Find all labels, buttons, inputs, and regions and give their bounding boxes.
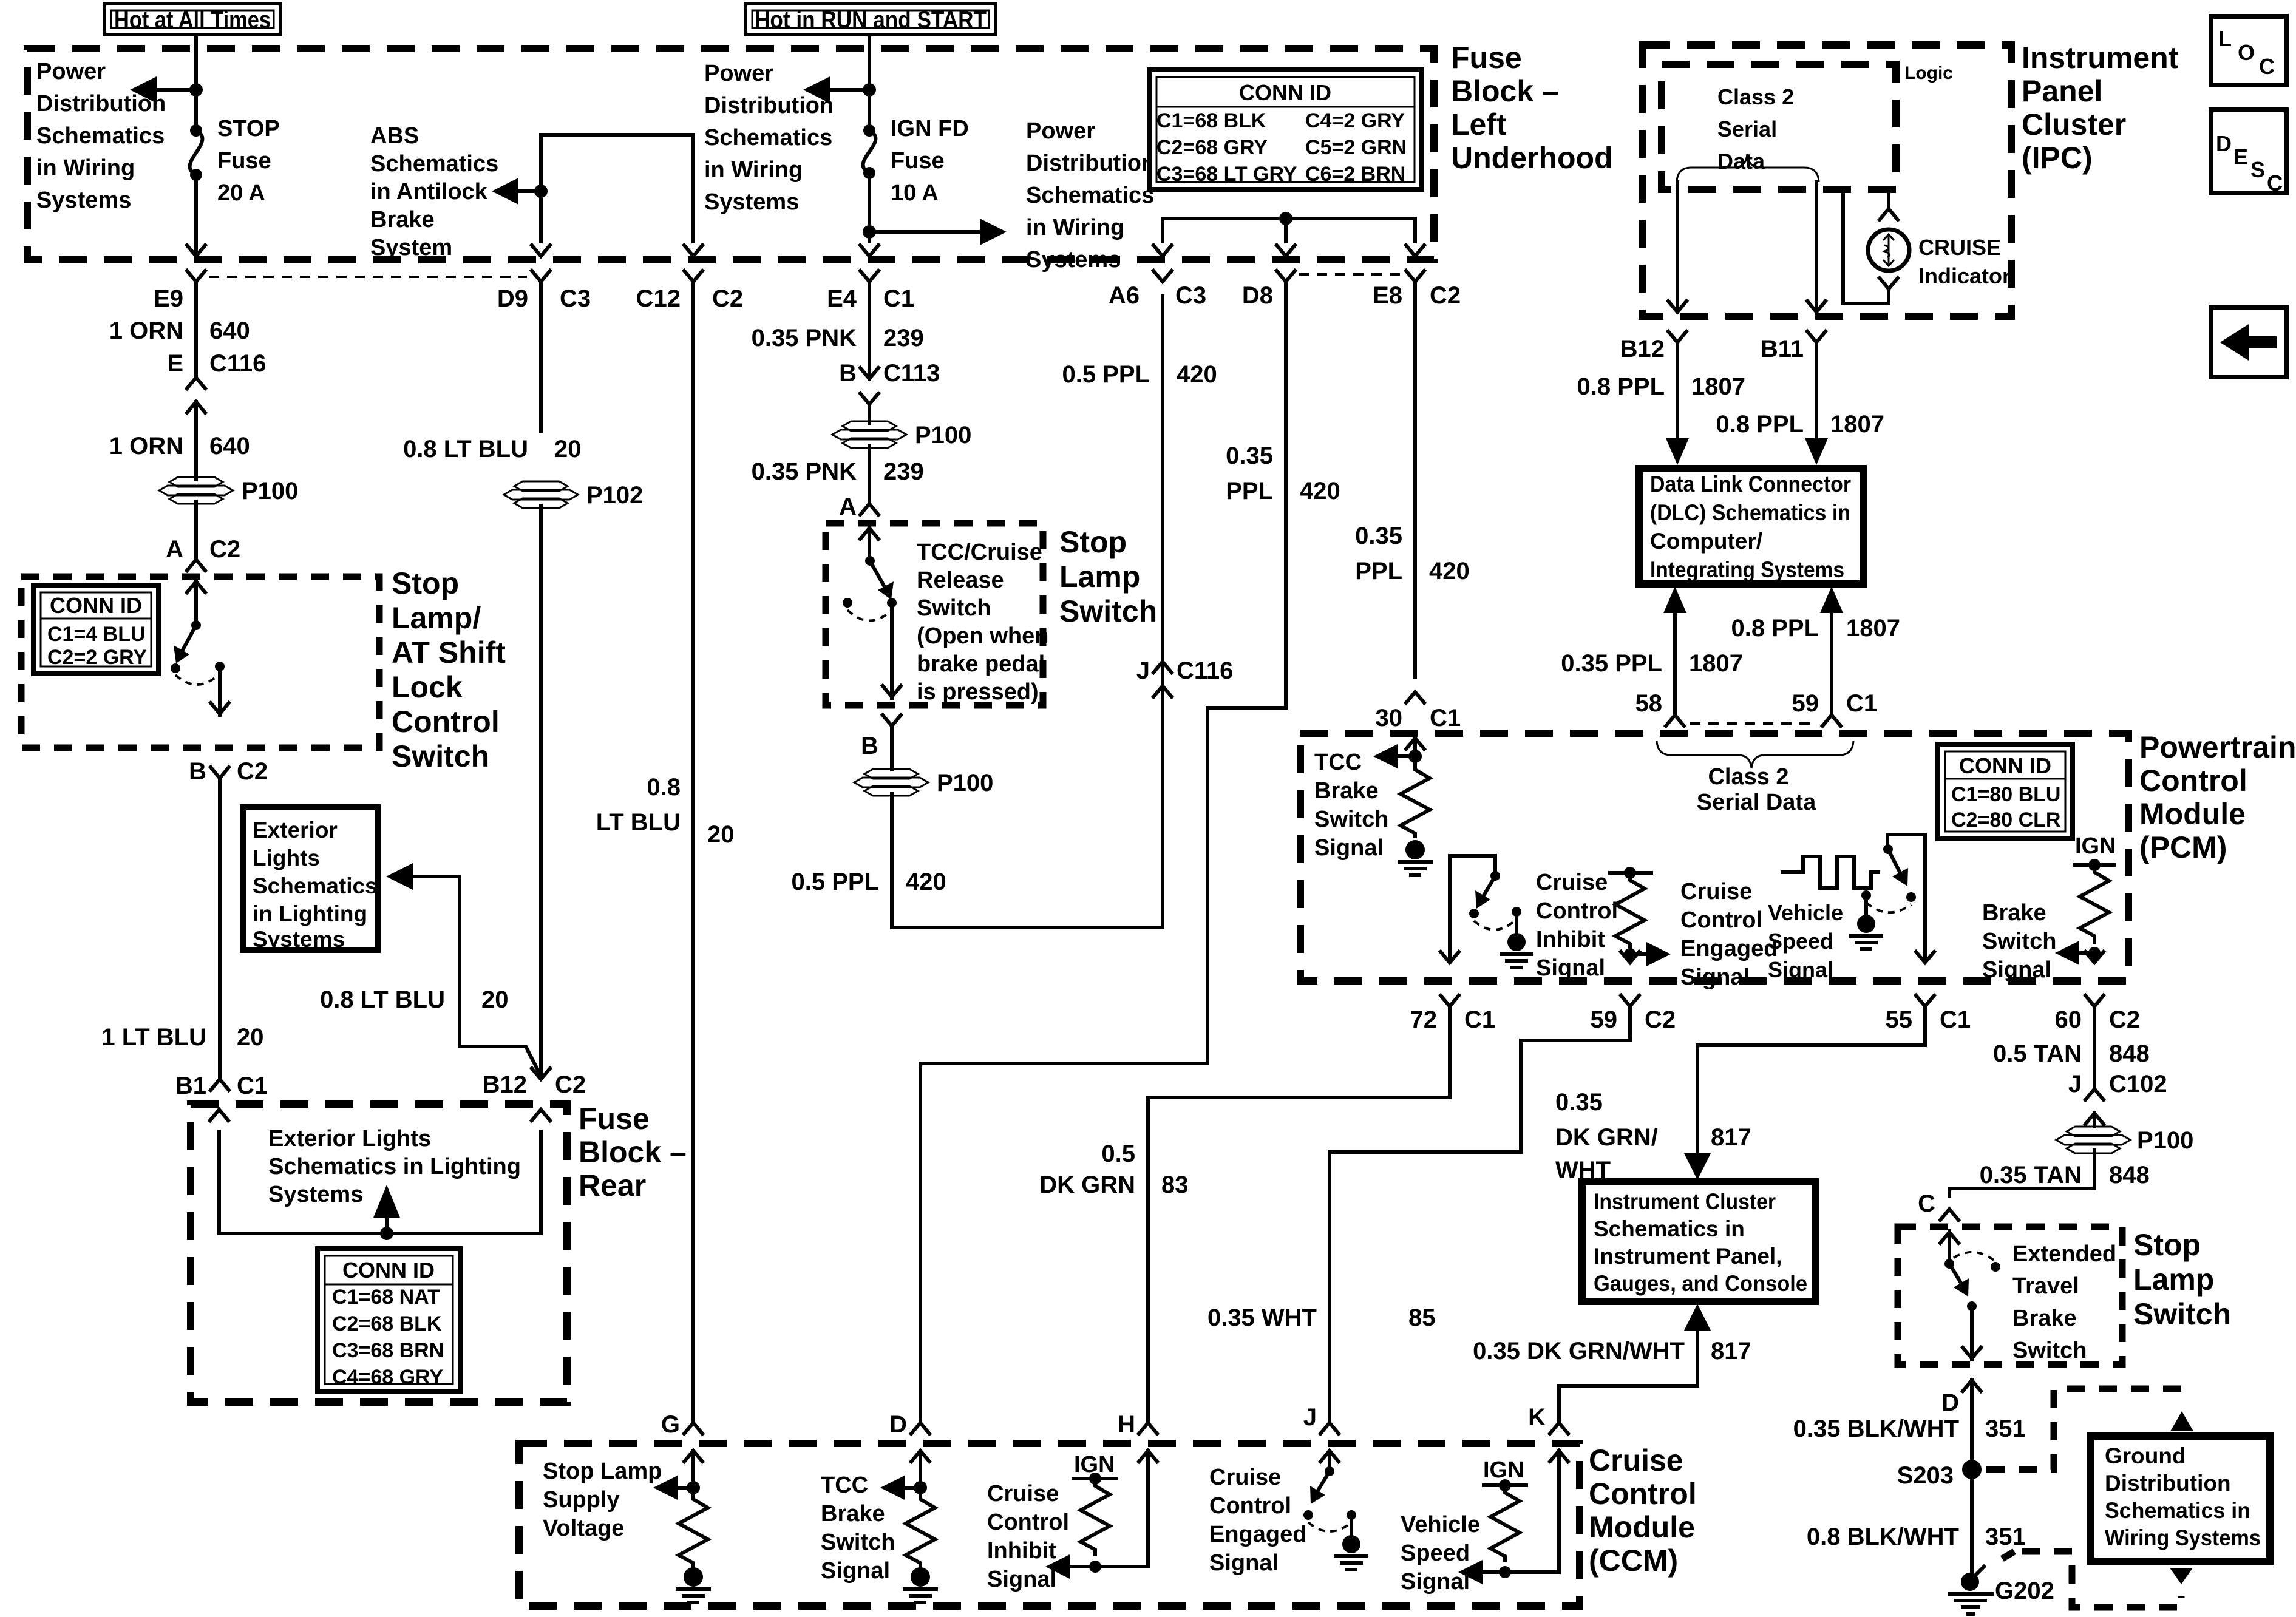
fuse block rear label xyxy=(579,1102,687,1202)
svg-text:0.8 PPL: 0.8 PPL xyxy=(1731,615,1819,642)
wire 72 exit xyxy=(1441,856,1459,963)
wire label 0.35 DK GRN/WHT 817 (upper) xyxy=(1555,1089,1751,1184)
svg-text:Vehicle: Vehicle xyxy=(1401,1512,1480,1537)
svg-text:Stop: Stop xyxy=(2133,1228,2201,1262)
svg-text:Cruise: Cruise xyxy=(1589,1443,1683,1477)
svg-text:Speed: Speed xyxy=(1401,1541,1470,1566)
arrow into DLC top (left) xyxy=(1666,436,1689,465)
svg-text:0.35 PNK: 0.35 PNK xyxy=(752,325,857,351)
svg-text:351: 351 xyxy=(1985,1524,2026,1550)
svg-text:Distribution: Distribution xyxy=(1026,151,1155,176)
ground G (CCM) xyxy=(678,1567,709,1602)
connector C116 cavity E xyxy=(167,350,266,480)
svg-text:in Wiring: in Wiring xyxy=(36,155,135,181)
svg-text:Inhibit: Inhibit xyxy=(1536,927,1605,952)
thin connector dash 58-59 xyxy=(1690,722,1818,725)
svg-text:Module: Module xyxy=(2139,797,2246,831)
node junction to power distribution xyxy=(189,83,203,97)
wire label 0.35 BLK/WHT 351 xyxy=(1793,1415,2026,1442)
wire H internal xyxy=(1068,1486,1148,1567)
svg-text:Lamp: Lamp xyxy=(2133,1263,2214,1297)
svg-text:848: 848 xyxy=(2109,1040,2150,1067)
svg-text:C3=68 BRN: C3=68 BRN xyxy=(332,1339,444,1362)
vehicle speed signal glyph (PCM) xyxy=(1782,856,1878,888)
wire 59 exit xyxy=(1621,952,1639,963)
svg-text:59: 59 xyxy=(1792,690,1819,717)
svg-text:G: G xyxy=(661,1411,680,1438)
svg-text:Release: Release xyxy=(917,568,1004,593)
connector fork K xyxy=(1528,1404,1568,1434)
wire fuse to E9 xyxy=(194,175,198,242)
svg-text:Switch: Switch xyxy=(821,1530,895,1555)
conn id box fuse block rear xyxy=(318,1249,460,1391)
svg-text:System: System xyxy=(370,235,452,260)
svg-text:Serial Data: Serial Data xyxy=(1697,790,1816,815)
connector fork D9 C3 xyxy=(497,271,591,431)
fuse block internal bus to D8 E8 xyxy=(1163,217,1415,220)
wire K internal xyxy=(1481,1486,1559,1572)
svg-text:30: 30 xyxy=(1376,705,1403,731)
cruise control inhibit signal text (PCM) xyxy=(1536,870,1618,981)
arrow into instrument cluster bottom xyxy=(1559,1304,1711,1424)
svg-text:Power: Power xyxy=(704,61,773,86)
svg-text:P100: P100 xyxy=(937,770,993,796)
svg-text:0.35 DK GRN/WHT: 0.35 DK GRN/WHT xyxy=(1473,1338,1685,1364)
svg-text:Systems: Systems xyxy=(268,1182,363,1207)
svg-text:Gauges, and Console: Gauges, and Console xyxy=(1594,1271,1807,1296)
wire label 0.8 LT BLU 20 (D9 wire) xyxy=(403,436,581,463)
connector fork H xyxy=(1118,1411,1157,1438)
instrument cluster schematics box xyxy=(1582,1182,1815,1301)
wire P102 down to B12 connector xyxy=(539,506,543,1074)
svg-text:10 A: 10 A xyxy=(891,180,939,206)
svg-text:Block –: Block – xyxy=(579,1135,687,1169)
stop lamp switch contacts xyxy=(171,620,225,685)
svg-text:239: 239 xyxy=(883,458,924,485)
wire label 0.5 PPL 420 (A6) xyxy=(1062,361,1217,388)
node K resistor junction xyxy=(1499,1566,1511,1578)
arrow up into DLC box xyxy=(1820,586,1843,613)
svg-text:Serial: Serial xyxy=(1717,117,1777,141)
svg-text:420: 420 xyxy=(906,869,946,895)
svg-text:0.5 PPL: 0.5 PPL xyxy=(1062,361,1150,388)
svg-text:D: D xyxy=(1941,1389,1959,1416)
arrow down B11 at IPC exit xyxy=(1807,291,1826,312)
wire label 0.35 PPL 420 (D8) xyxy=(1226,442,1340,504)
svg-text:Powertrain: Powertrain xyxy=(2139,730,2296,764)
svg-text:Computer/: Computer/ xyxy=(1650,529,1762,554)
svg-text:Switch: Switch xyxy=(1982,929,2056,954)
connector fork C at extended travel switch xyxy=(1918,1190,1958,1220)
svg-text:72: 72 xyxy=(1410,1006,1438,1033)
arrow into extended travel box xyxy=(1940,1231,1958,1261)
node TCC brake junction xyxy=(1408,750,1422,763)
svg-text:J: J xyxy=(2068,1071,2082,1097)
svg-text:Ground: Ground xyxy=(2105,1443,2186,1468)
cruise control engaged switch (CCM) xyxy=(1303,1466,1367,1570)
svg-text:Instrument Panel,: Instrument Panel, xyxy=(1594,1244,1782,1269)
wire label 0.35 WHT 85 xyxy=(1207,1304,1436,1331)
wire label 0.5 TAN 848 xyxy=(1993,1040,2150,1067)
svg-text:Cruise: Cruise xyxy=(1680,879,1752,904)
arrow down E4 xyxy=(860,245,878,256)
class 2 serial data text (PCM) xyxy=(1697,764,1816,815)
svg-text:Power: Power xyxy=(36,59,106,84)
arrow down B12 at IPC exit xyxy=(1668,291,1686,312)
svg-text:1 ORN: 1 ORN xyxy=(109,317,183,344)
svg-text:20: 20 xyxy=(237,1024,264,1051)
svg-text:Vehicle: Vehicle xyxy=(1768,900,1843,925)
brake switch signal text (PCM) xyxy=(1982,900,2056,983)
svg-text:Module: Module xyxy=(1589,1510,1695,1544)
svg-text:J: J xyxy=(1136,657,1150,684)
resistor stop lamp supply xyxy=(679,1488,708,1568)
connector fork B11 xyxy=(1761,331,1826,362)
arrow up H inside CCM xyxy=(1139,1451,1157,1486)
wire P100 down and right to A6 riser xyxy=(892,296,1163,927)
svg-text:1807: 1807 xyxy=(1830,411,1884,438)
brace class 2 serial data (IPC) xyxy=(1677,154,1819,182)
cruise control engaged signal text (CCM) xyxy=(1209,1465,1306,1576)
E8 drop xyxy=(1406,219,1424,256)
wire H drop xyxy=(1146,1097,1150,1423)
C12 drop wire xyxy=(684,135,702,256)
svg-text:817: 817 xyxy=(1711,1124,1751,1151)
arrow right to power distribution ref xyxy=(869,230,979,234)
extended travel switch contacts xyxy=(1944,1252,2000,1311)
connector fork 60 C2 xyxy=(2055,995,2141,1089)
node H resistor junction xyxy=(1089,1561,1101,1573)
IGN FD fuse label xyxy=(891,116,969,206)
svg-text:D9: D9 xyxy=(497,285,528,312)
svg-text:C2=80 CLR: C2=80 CLR xyxy=(1951,808,2060,832)
cruise control module dashed box xyxy=(519,1443,1580,1606)
svg-text:C4=68 GRY: C4=68 GRY xyxy=(332,1366,443,1389)
svg-text:C1: C1 xyxy=(1430,705,1461,731)
wire STOP fuse feed xyxy=(194,35,198,128)
stop lamp switch dashed box xyxy=(21,577,379,748)
svg-text:S203: S203 xyxy=(1897,1462,1954,1489)
fuse STOP 20A xyxy=(190,124,203,181)
svg-text:Lights: Lights xyxy=(253,846,320,870)
TCC brake switch signal text (PCM) xyxy=(1314,750,1388,861)
instrument panel cluster dashed box xyxy=(1642,45,2011,316)
svg-text:CRUISE: CRUISE xyxy=(1918,235,2001,260)
svg-text:C116: C116 xyxy=(209,350,266,377)
wire label 0.8 LT BLU 20 (G wire) xyxy=(596,774,735,848)
arrow to power distribution ref xyxy=(159,88,196,92)
svg-text:Stop: Stop xyxy=(1059,525,1127,559)
svg-text:817: 817 xyxy=(1711,1338,1751,1364)
svg-text:Stop Lamp: Stop Lamp xyxy=(543,1459,662,1484)
svg-text:55: 55 xyxy=(1886,1006,1913,1033)
svg-text:(CCM): (CCM) xyxy=(1589,1544,1678,1578)
svg-text:0.35: 0.35 xyxy=(1355,523,1402,549)
svg-text:C5=2 GRN: C5=2 GRN xyxy=(1305,136,1407,159)
svg-text:Distribution: Distribution xyxy=(2105,1471,2231,1496)
conn id box fuse block left underhood xyxy=(1149,70,1422,189)
svg-text:Hot in RUN and START: Hot in RUN and START xyxy=(755,7,987,33)
connector fork J xyxy=(1303,1404,1339,1434)
svg-text:Schematics: Schematics xyxy=(704,125,832,151)
svg-text:B: B xyxy=(189,758,206,785)
svg-text:C1=4 BLU: C1=4 BLU xyxy=(47,623,146,646)
svg-text:C1: C1 xyxy=(1464,1006,1495,1033)
vehicle speed signal text (CCM) xyxy=(1401,1512,1480,1595)
data link connector box xyxy=(1639,469,1863,584)
svg-text:Switch: Switch xyxy=(2133,1297,2231,1331)
svg-text:C1: C1 xyxy=(1940,1006,1971,1033)
wire 55 exit xyxy=(1916,835,1934,963)
svg-text:640: 640 xyxy=(209,317,250,344)
svg-text:H: H xyxy=(1118,1411,1135,1438)
svg-text:Brake: Brake xyxy=(370,207,435,232)
svg-text:Schematics in: Schematics in xyxy=(1594,1216,1745,1241)
marker down triangle xyxy=(2170,1568,2193,1584)
Hot in RUN and START box xyxy=(746,4,996,35)
svg-text:Extended: Extended xyxy=(2012,1241,2116,1267)
svg-text:IGN: IGN xyxy=(2075,833,2116,859)
fuse block rear dashed box xyxy=(191,1104,567,1402)
stop lamp supply voltage text xyxy=(543,1459,662,1541)
exterior lights schematics box (upper) xyxy=(243,807,378,952)
wire switch output to box exit xyxy=(211,666,229,715)
svg-text:E4: E4 xyxy=(827,285,857,312)
svg-text:E8: E8 xyxy=(1373,282,1402,309)
svg-text:Engaged: Engaged xyxy=(1209,1522,1306,1547)
svg-text:0.8: 0.8 xyxy=(647,774,681,801)
svg-text:Switch: Switch xyxy=(392,739,489,773)
svg-text:Exterior Lights: Exterior Lights xyxy=(268,1126,431,1151)
ground distribution schematics box xyxy=(2091,1436,2270,1561)
svg-text:0.8 BLK/WHT: 0.8 BLK/WHT xyxy=(1807,1524,1959,1550)
connector fork D below switch xyxy=(1941,1380,1981,1574)
grommet P102 xyxy=(504,481,643,509)
svg-text:0.5: 0.5 xyxy=(1101,1141,1135,1167)
svg-text:C2=2 GRY: C2=2 GRY xyxy=(47,646,147,669)
svg-text:B: B xyxy=(861,733,878,759)
TCC brake switch signal text (CCM) xyxy=(821,1473,895,1584)
node D junction xyxy=(914,1481,927,1494)
svg-text:Schematics: Schematics xyxy=(253,873,378,898)
svg-text:Control: Control xyxy=(2139,764,2247,798)
grommet P100 (E4 wire) xyxy=(832,421,971,449)
svg-text:Data Link Connector: Data Link Connector xyxy=(1650,472,1851,497)
svg-text:C102: C102 xyxy=(2109,1071,2167,1097)
svg-text:Distribution: Distribution xyxy=(704,93,834,118)
svg-text:0.5 PPL: 0.5 PPL xyxy=(791,869,879,895)
extended travel brake switch text xyxy=(2012,1241,2116,1363)
IGN pull-up K (CCM) xyxy=(1483,1457,1526,1560)
arrow left to TCC text xyxy=(1399,754,1415,758)
svg-text:LT BLU: LT BLU xyxy=(596,809,681,836)
svg-text:Signal: Signal xyxy=(1401,1569,1470,1595)
svg-text:Signal: Signal xyxy=(1314,835,1384,861)
svg-text:in Wiring: in Wiring xyxy=(1026,215,1124,240)
svg-text:Signal: Signal xyxy=(1209,1550,1279,1576)
svg-text:Class 2: Class 2 xyxy=(1717,84,1794,109)
svg-text:S: S xyxy=(2250,157,2265,182)
svg-text:Wiring Systems: Wiring Systems xyxy=(2105,1525,2261,1550)
wire P100 to C xyxy=(1949,1150,2094,1196)
fuse block internal bus wire xyxy=(541,133,693,137)
grommet P100 xyxy=(159,477,298,504)
svg-text:L: L xyxy=(2218,26,2232,51)
svg-text:P100: P100 xyxy=(242,478,298,504)
svg-text:59: 59 xyxy=(1591,1006,1618,1033)
wire D drop to CCM xyxy=(920,1063,1207,1423)
svg-text:Brake: Brake xyxy=(1314,778,1379,804)
svg-text:420: 420 xyxy=(1300,478,1340,504)
exterior lights schematics text (rear block) xyxy=(268,1126,521,1207)
wire to C116 xyxy=(194,316,198,375)
arrow into instrument cluster top xyxy=(1684,1153,1711,1180)
arrow up B1 inside rear block xyxy=(210,1110,228,1233)
svg-text:Switch: Switch xyxy=(917,595,991,621)
wire label 0.35 PNK 239 xyxy=(752,325,924,351)
svg-text:B11: B11 xyxy=(1761,336,1804,362)
svg-text:C1: C1 xyxy=(883,285,914,312)
svg-text:Supply: Supply xyxy=(543,1487,620,1513)
svg-text:20 A: 20 A xyxy=(217,180,265,206)
wire B11 inside IPC xyxy=(1815,182,1818,291)
svg-text:C116: C116 xyxy=(1177,657,1233,684)
svg-text:ABS: ABS xyxy=(370,123,419,149)
svg-text:E9: E9 xyxy=(154,285,183,312)
arrow up into DLC box xyxy=(1663,586,1686,613)
svg-text:420: 420 xyxy=(1177,361,1217,388)
svg-text:Distribution: Distribution xyxy=(36,91,166,117)
cruise control inhibit switch (PCM) xyxy=(1450,856,1532,968)
svg-text:20: 20 xyxy=(707,821,735,848)
power distribution schematics text (middle) xyxy=(704,61,834,215)
svg-text:Engaged: Engaged xyxy=(1680,936,1778,961)
svg-text:Class 2: Class 2 xyxy=(1708,764,1788,790)
thin connector dash line D8-E8 xyxy=(1299,273,1401,276)
svg-text:Underhood: Underhood xyxy=(1451,141,1613,175)
svg-text:J: J xyxy=(1303,1404,1317,1431)
connector fork D xyxy=(889,1411,929,1438)
svg-text:B12: B12 xyxy=(483,1071,527,1098)
splice S203 xyxy=(1897,1460,1982,1489)
svg-text:C1=68 BLK: C1=68 BLK xyxy=(1156,109,1266,132)
connector C102 cavity J xyxy=(2068,1071,2167,1127)
svg-text:Switch: Switch xyxy=(1314,807,1388,832)
ground G202 xyxy=(1949,1567,2054,1614)
internal bus wire rear block xyxy=(219,1232,541,1235)
svg-text:0.35 PPL: 0.35 PPL xyxy=(1561,650,1662,677)
svg-text:D: D xyxy=(889,1411,907,1438)
IPC label xyxy=(2022,41,2179,175)
arrow left TCC xyxy=(905,1486,920,1490)
svg-text:TCC: TCC xyxy=(821,1473,868,1498)
svg-text:C2=68 BLK: C2=68 BLK xyxy=(332,1312,442,1335)
connector fork B12 xyxy=(1620,331,1686,362)
svg-text:0.35: 0.35 xyxy=(1226,442,1273,469)
svg-text:(Open when: (Open when xyxy=(917,623,1048,649)
svg-text:C2: C2 xyxy=(209,536,240,563)
arrow left cruise inhibit xyxy=(1045,1554,1070,1579)
IPC logic inner dashed box xyxy=(1662,64,1896,189)
svg-text:CONN ID: CONN ID xyxy=(342,1258,435,1283)
wire label 0.8 LT BLU 20 (tap) xyxy=(320,986,508,1013)
arrow into box xyxy=(860,527,878,561)
svg-text:C3: C3 xyxy=(560,285,591,312)
cruise indicator label xyxy=(1918,235,2011,288)
svg-text:Control: Control xyxy=(392,705,500,739)
wire fuse down xyxy=(868,173,871,242)
arrow down A6 (inside fuse block) xyxy=(1153,219,1172,256)
svg-text:Power: Power xyxy=(1026,118,1095,144)
svg-text:351: 351 xyxy=(1985,1415,2026,1442)
svg-text:Schematics: Schematics xyxy=(370,151,498,177)
svg-text:Stop: Stop xyxy=(392,566,459,600)
resistor TCC brake (CCM) xyxy=(906,1488,935,1568)
connector fork 55 C1 xyxy=(1697,995,1971,1159)
ground distribution dashed frame (S203) xyxy=(1986,1389,2184,1470)
vehicle speed signal text (PCM) xyxy=(1768,900,1843,982)
arrow to power distribution ref xyxy=(832,88,869,92)
svg-text:1 LT BLU: 1 LT BLU xyxy=(101,1024,206,1051)
svg-text:B: B xyxy=(839,360,857,387)
svg-text:in Lighting: in Lighting xyxy=(253,901,367,926)
connector C113 cavity B xyxy=(839,356,940,424)
ABS schematics text xyxy=(370,123,498,260)
arrow up J inside CCM xyxy=(1320,1451,1339,1471)
svg-text:C113: C113 xyxy=(883,360,940,387)
svg-text:C2: C2 xyxy=(1645,1006,1676,1033)
svg-text:239: 239 xyxy=(883,325,924,351)
wire switch output exit xyxy=(1963,1306,1981,1360)
svg-text:C2: C2 xyxy=(237,758,268,785)
arrow up 30 inside PCM xyxy=(1406,738,1424,759)
svg-text:58: 58 xyxy=(1635,690,1663,717)
svg-text:C: C xyxy=(2259,54,2275,79)
cruise control inhibit signal text (CCM) xyxy=(987,1481,1069,1592)
connector fork A6 C3 xyxy=(1109,271,1206,309)
svg-text:0.8 LT BLU: 0.8 LT BLU xyxy=(403,436,528,463)
arrow into switch box xyxy=(187,580,205,625)
TCC release switch text xyxy=(917,540,1048,705)
connector C116 cavity J xyxy=(1136,657,1234,697)
svg-text:640: 640 xyxy=(209,433,250,459)
arrow into DLC top (right) xyxy=(1805,436,1828,465)
svg-text:Control: Control xyxy=(1536,898,1618,924)
node G junction xyxy=(687,1481,700,1494)
svg-text:PPL: PPL xyxy=(1355,558,1402,585)
svg-text:Logic: Logic xyxy=(1904,63,1953,83)
svg-text:A6: A6 xyxy=(1109,282,1140,309)
svg-text:C3: C3 xyxy=(1175,282,1206,309)
svg-text:0.8 PPL: 0.8 PPL xyxy=(1577,373,1665,400)
LOC legend box xyxy=(2211,16,2286,85)
fuse block left underhood label xyxy=(1451,41,1613,175)
svg-text:85: 85 xyxy=(1408,1304,1436,1331)
wire switch output to exit xyxy=(883,603,901,698)
svg-text:C2: C2 xyxy=(1430,282,1461,309)
svg-text:Rear: Rear xyxy=(579,1168,646,1202)
Hot at All Times box xyxy=(104,4,280,35)
grommet P100 (brake switch wire) xyxy=(2056,1127,2193,1154)
connector fork 59 C2 xyxy=(1330,995,1676,1423)
svg-text:Signal: Signal xyxy=(1536,955,1605,981)
svg-text:Schematics in Lighting: Schematics in Lighting xyxy=(268,1154,521,1179)
svg-text:D8: D8 xyxy=(1242,282,1273,309)
class 2 serial data text (IPC) xyxy=(1717,84,1794,174)
wire label 0.35 PPL 1807 xyxy=(1561,650,1743,677)
arrow up G inside CCM xyxy=(684,1451,702,1486)
back-arrow legend box xyxy=(2211,308,2286,377)
